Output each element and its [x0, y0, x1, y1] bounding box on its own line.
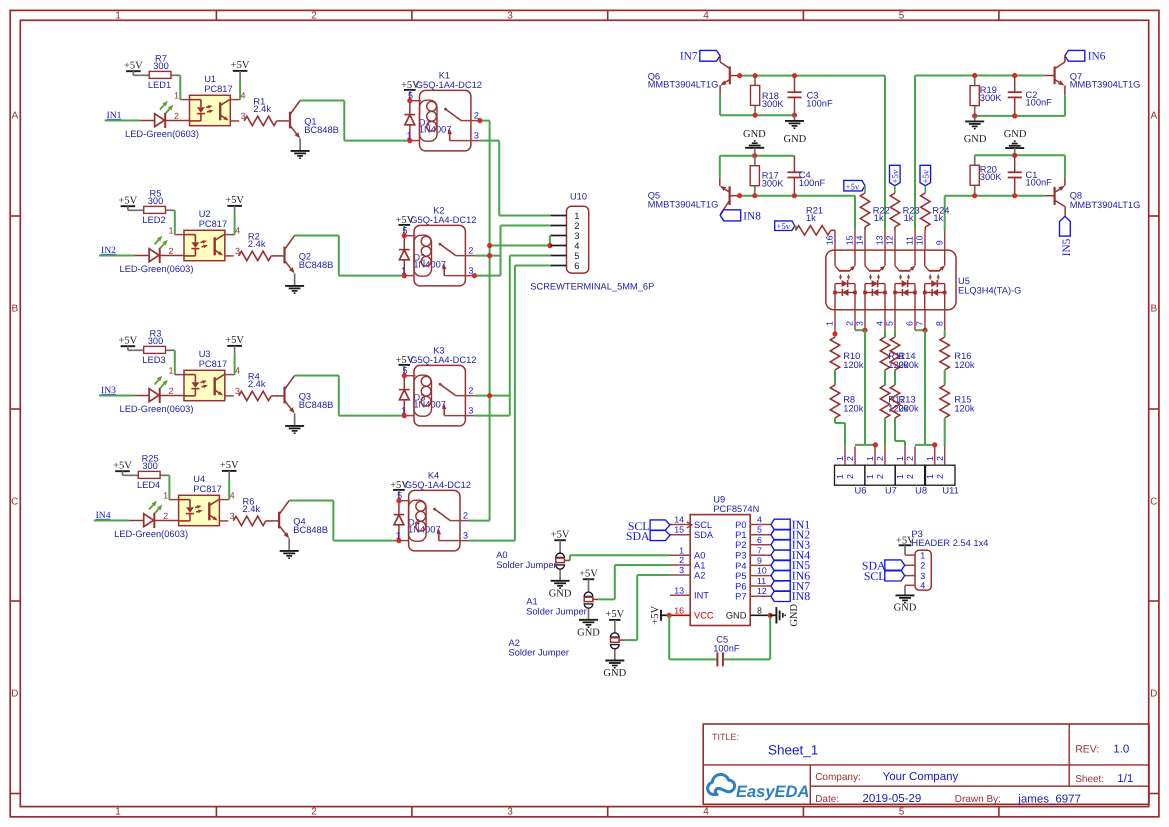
ground [294, 413, 296, 425]
svg-text:4: 4 [230, 490, 235, 500]
svg-text:SCL: SCL [694, 520, 712, 530]
svg-text:10: 10 [915, 235, 925, 245]
wire Q1-K1 [344, 140, 410, 142]
svg-text:4: 4 [703, 807, 709, 818]
diode D2 1N4007 [403, 236, 405, 250]
U5 cell 2 LED pair [864, 284, 866, 310]
svg-text:9: 9 [757, 555, 762, 565]
svg-text:1: 1 [163, 490, 168, 500]
wire R8 to U6 pin1 [834, 418, 836, 423]
U9 pin 3 A2 [670, 574, 690, 576]
capacitor C3 100nF [794, 76, 796, 93]
power flag +5v for R22 [844, 180, 865, 191]
svg-text:100nF: 100nF [713, 644, 740, 654]
transistor Q6 MMBT3904LT1G [719, 56, 721, 62]
svg-text:+5V: +5V [231, 60, 250, 71]
resistor R23 1k [894, 186, 896, 193]
wire Q7 emitter rail [1064, 95, 1066, 116]
svg-text:2: 2 [875, 456, 885, 461]
svg-text:U8: U8 [915, 486, 927, 496]
svg-text:1k: 1k [933, 213, 943, 223]
svg-text:120k: 120k [954, 404, 975, 414]
resistor R11 120k [880, 337, 889, 370]
pin 5 [551, 255, 567, 257]
svg-text:P5: P5 [735, 571, 746, 581]
U9 pin 1 A0 [670, 554, 690, 556]
svg-text:300K: 300K [980, 172, 1003, 182]
svg-text:GND: GND [603, 668, 626, 679]
U9 pin 4 P0 [750, 524, 771, 526]
svg-text:2: 2 [174, 111, 179, 121]
svg-text:2: 2 [845, 456, 855, 461]
svg-text:120k: 120k [843, 360, 864, 370]
port IN4 [771, 550, 790, 561]
svg-text:GND: GND [1004, 129, 1027, 140]
resistor R24 1k [924, 186, 926, 193]
U9 pin 5 P1 [750, 534, 771, 536]
svg-text:MMBT3904LT1G: MMBT3904LT1G [648, 80, 719, 90]
svg-text:+5v: +5v [921, 169, 931, 183]
svg-text:2: 2 [679, 555, 684, 565]
transistor Q1 BC848B [277, 120, 289, 122]
svg-text:Solder Jumper: Solder Jumper [496, 560, 556, 570]
wire collector [295, 235, 339, 237]
power flag +5v for R21 [775, 221, 795, 231]
U5 cell 4 LED pair [924, 284, 926, 310]
svg-text:G5Q-1A4-DC12: G5Q-1A4-DC12 [416, 80, 482, 90]
wire [179, 75, 181, 99]
U5 pin 6 [914, 310, 916, 330]
svg-text:1: 1 [115, 11, 121, 22]
svg-text:1: 1 [825, 321, 835, 326]
svg-text:BC848B: BC848B [304, 125, 339, 135]
svg-text:2: 2 [168, 386, 173, 396]
svg-text:2: 2 [574, 221, 579, 231]
svg-text:INT: INT [694, 591, 709, 601]
wire R12 to U7 pin2 [884, 418, 886, 446]
svg-text:14: 14 [855, 235, 865, 245]
resistor R6 2.4k [233, 516, 265, 525]
U5 pin 5 [894, 310, 896, 330]
wire collector [300, 100, 344, 102]
svg-text:3: 3 [920, 571, 925, 581]
wire Q6 base rail [730, 75, 740, 77]
wire [168, 475, 170, 499]
ground [294, 273, 296, 285]
svg-text:1: 1 [835, 474, 845, 479]
pin 3 [551, 235, 567, 237]
U5 pin 16 [834, 230, 836, 250]
U5 pin 13 [884, 230, 886, 250]
svg-text:4: 4 [235, 225, 240, 235]
svg-text:9: 9 [934, 240, 944, 245]
svg-text:Solder Jumper: Solder Jumper [509, 648, 569, 658]
svg-text:5: 5 [899, 807, 905, 818]
svg-text:IN7: IN7 [680, 50, 698, 62]
svg-text:1k: 1k [904, 213, 914, 223]
svg-text:LED1: LED1 [148, 80, 171, 90]
resistor R17 300K [754, 156, 756, 166]
svg-text:GND: GND [964, 134, 987, 145]
svg-text:VCC: VCC [694, 611, 714, 621]
svg-text:P6: P6 [735, 581, 746, 591]
wire [225, 234, 235, 236]
IC U9 PCF8574N [690, 515, 750, 626]
svg-text:6: 6 [905, 321, 915, 326]
svg-text:GND: GND [726, 611, 747, 621]
svg-text:U6: U6 [855, 486, 867, 496]
svg-text:3: 3 [463, 531, 468, 541]
relay K1 G5Q-1A4-DC12 [420, 90, 471, 150]
svg-text:Drawn By:: Drawn By: [955, 794, 1001, 805]
port IN1 [771, 519, 790, 530]
resistor R12 120k [880, 385, 889, 418]
U9 pin 13 INT [670, 594, 690, 596]
svg-text:1.0: 1.0 [1113, 744, 1129, 756]
svg-text:PC817: PC817 [199, 219, 227, 229]
svg-text:300K: 300K [980, 93, 1003, 103]
U9 pin 2 A1 [670, 564, 690, 566]
svg-text:C: C [1150, 497, 1157, 508]
svg-text:1: 1 [920, 551, 925, 561]
svg-text:SCREWTERMINAL_5MM_6P: SCREWTERMINAL_5MM_6P [530, 282, 654, 292]
svg-text:4: 4 [875, 321, 885, 326]
svg-text:2.4k: 2.4k [243, 504, 261, 514]
svg-text:11: 11 [757, 576, 766, 586]
svg-text:2: 2 [311, 11, 317, 22]
svg-text:P3: P3 [735, 551, 746, 561]
wire A1 to U9 [593, 598, 599, 600]
svg-text:2.4k: 2.4k [248, 239, 266, 249]
optocoupler U4 PC817 [179, 495, 220, 525]
power flag +5v for R24 [920, 165, 931, 185]
wire U5 pin8 column [944, 330, 946, 337]
svg-text:U5: U5 [958, 276, 970, 286]
wire Q7 base rail [1045, 75, 1055, 77]
svg-text:300K: 300K [762, 178, 785, 188]
port IN7 [771, 581, 790, 592]
svg-text:3: 3 [468, 406, 473, 416]
resistor R2 2.4k [239, 251, 272, 260]
svg-text:REV:: REV: [1075, 744, 1099, 756]
U5 pin 3 [864, 310, 866, 330]
svg-text:+5V: +5V [119, 335, 138, 346]
port IN7 [700, 50, 720, 61]
svg-text:2: 2 [468, 386, 473, 396]
capacitor C5 100nF [668, 615, 670, 659]
svg-text:7: 7 [757, 545, 762, 555]
U5 pin 10 [924, 230, 926, 250]
svg-text:U2: U2 [199, 209, 211, 219]
svg-text:4: 4 [703, 11, 709, 22]
svg-text:2: 2 [463, 511, 468, 521]
junction dots [407, 98, 412, 103]
relay K2 G5Q-1A4-DC12 [414, 225, 465, 286]
svg-text:1: 1 [925, 456, 935, 461]
svg-text:Company:: Company: [815, 772, 861, 783]
svg-text:6: 6 [574, 261, 579, 271]
transistor Q8 MMBT3904LT1G [1064, 178, 1066, 186]
U5 cell 1 phototransistor [834, 250, 836, 266]
svg-text:2.4k: 2.4k [253, 104, 271, 114]
optocoupler U2 PC817 [184, 230, 225, 260]
svg-text:A0: A0 [694, 551, 705, 561]
port IN2 [771, 529, 790, 540]
svg-text:+5V: +5V [225, 195, 244, 206]
svg-text:120k: 120k [843, 404, 864, 414]
svg-text:Solder Jumper: Solder Jumper [526, 606, 586, 616]
svg-text:200k: 200k [899, 360, 920, 370]
optocoupler U5 ELQ3H4(TA)-G [826, 250, 956, 310]
optocoupler U1 PC817 [190, 95, 231, 125]
svg-text:1: 1 [174, 90, 179, 100]
resistor R16 120k [940, 337, 949, 370]
resistor R1 2.4k [244, 116, 277, 125]
svg-text:300K: 300K [762, 99, 785, 109]
svg-text:BC848B: BC848B [299, 260, 334, 270]
U5 cell 4 phototransistor [924, 250, 926, 266]
svg-text:A: A [1150, 111, 1157, 122]
wire K2 pin3 to U10 pin2 [474, 275, 500, 277]
wire K3 pin3 to U10 pin5 [474, 415, 509, 417]
svg-text:TITLE:: TITLE: [712, 732, 739, 742]
U5 pin 1 [834, 310, 836, 330]
svg-text:8: 8 [934, 321, 944, 326]
svg-text:+5V: +5V [605, 609, 624, 620]
svg-text:+5V: +5V [124, 60, 143, 71]
svg-text:G5Q-1A4-DC12: G5Q-1A4-DC12 [405, 480, 471, 490]
svg-text:1k: 1k [874, 213, 884, 223]
svg-text:300: 300 [153, 61, 169, 71]
svg-text:HEADER 2.54 1x4: HEADER 2.54 1x4 [911, 538, 988, 548]
wire Q2-K2 [339, 275, 405, 277]
svg-text:2019-05-29: 2019-05-29 [863, 793, 922, 805]
svg-text:+5V: +5V [225, 335, 244, 346]
svg-text:2: 2 [875, 474, 885, 479]
junction dots [396, 498, 401, 503]
U5 pin 14 [864, 230, 866, 250]
svg-text:100nF: 100nF [1026, 97, 1053, 107]
svg-text:1k: 1k [806, 213, 816, 223]
power flag +5v for R23 [890, 165, 901, 185]
resistor R20 300K [974, 155, 976, 165]
svg-text:13: 13 [674, 585, 684, 595]
resistor R15 120k [940, 385, 949, 418]
svg-text:Sheet:: Sheet: [1075, 774, 1104, 785]
svg-text:100nF: 100nF [806, 99, 833, 109]
svg-text:+5V: +5V [551, 530, 570, 541]
svg-text:2: 2 [845, 474, 855, 479]
wire R13 to U8 pin1 [894, 418, 896, 441]
svg-text:SDA: SDA [626, 529, 650, 543]
svg-text:U4: U4 [193, 474, 205, 484]
U5 cell 4 light arrows [929, 278, 931, 280]
wire U5 pin1 [834, 330, 836, 337]
svg-text:3: 3 [679, 565, 684, 575]
U5 cell 1 light arrows [840, 278, 842, 280]
svg-text:4: 4 [757, 515, 762, 525]
resistor R25 300 [128, 474, 138, 476]
svg-text:15: 15 [674, 525, 684, 535]
svg-text:P0: P0 [735, 520, 746, 530]
U9 pin 8 GND [750, 614, 770, 616]
resistor R18 300K [754, 76, 756, 86]
connector U7 [865, 465, 895, 485]
resistor R5 300 [134, 209, 144, 211]
pin 4 [551, 245, 567, 247]
svg-text:11: 11 [905, 236, 915, 245]
port IN8 [771, 591, 790, 602]
svg-text:LED-Green(0603): LED-Green(0603) [120, 404, 194, 414]
svg-text:GND: GND [784, 134, 807, 145]
svg-text:PC817: PC817 [204, 84, 232, 94]
svg-text:120k: 120k [954, 360, 975, 370]
wire to U5 pin15 [854, 196, 856, 231]
svg-text:K1: K1 [439, 70, 450, 80]
svg-text:Date:: Date: [815, 794, 839, 805]
LED LED3 LED-Green(0603) [135, 395, 149, 397]
U5 pin 7 [924, 310, 926, 330]
port SDA at P3 [885, 560, 905, 571]
svg-text:1: 1 [574, 211, 579, 221]
svg-text:PCF8574N: PCF8574N [713, 504, 759, 514]
svg-text:B: B [1150, 304, 1157, 315]
P3 pin 2 [905, 564, 915, 566]
svg-text:2: 2 [168, 246, 173, 256]
U9 pin 6 P2 [750, 544, 771, 546]
U5 cell 3 light arrows [900, 278, 902, 280]
P3 pin 1 [905, 554, 915, 556]
svg-text:12: 12 [757, 586, 767, 596]
svg-text:3: 3 [574, 231, 579, 241]
U5 pin 4 [884, 310, 886, 330]
svg-text:+5v: +5v [890, 169, 900, 183]
svg-text:1: 1 [679, 545, 684, 555]
svg-text:2: 2 [905, 456, 915, 461]
U5 pin 9 [944, 230, 946, 250]
svg-text:300: 300 [142, 461, 158, 471]
svg-text:+5v: +5v [846, 181, 860, 191]
U5 cell 2 phototransistor [864, 250, 866, 266]
svg-text:2: 2 [311, 807, 317, 818]
U9 pin 14 SCL [670, 524, 690, 526]
pin 1 [551, 215, 567, 217]
U5 pin 15 [854, 230, 856, 250]
svg-text:LED3: LED3 [142, 355, 165, 365]
svg-text:MMBT3904LT1G: MMBT3904LT1G [1070, 200, 1141, 210]
svg-text:P7: P7 [735, 592, 746, 602]
svg-text:BC848B: BC848B [293, 525, 328, 535]
resistor R4 2.4k [239, 391, 272, 400]
svg-text:MMBT3904LT1G: MMBT3904LT1G [1070, 80, 1141, 90]
resistor R7 300 [139, 74, 149, 76]
svg-text:U11: U11 [942, 486, 958, 496]
svg-text:PC817: PC817 [193, 484, 221, 494]
connector U8 [895, 465, 925, 485]
svg-text:B: B [11, 304, 18, 315]
svg-text:K4: K4 [428, 470, 439, 480]
svg-text:1: 1 [168, 225, 173, 235]
svg-text:A1: A1 [694, 560, 705, 570]
ground at U9 pin8 [770, 614, 776, 616]
wire Q6 emitter rail [719, 95, 721, 115]
connector U6 [835, 465, 865, 485]
port IN5 [1060, 216, 1071, 236]
U9 pin 15 SDA [670, 534, 690, 536]
svg-text:ELQ3H4(TA)-G: ELQ3H4(TA)-G [958, 286, 1021, 296]
svg-text:EasyEDA: EasyEDA [736, 783, 809, 801]
svg-text:5: 5 [574, 251, 579, 261]
pin 6 [551, 265, 567, 267]
svg-text:3: 3 [507, 11, 513, 22]
wire U5 pin4 column [884, 330, 886, 337]
transistor Q5 MMBT3904LT1G [719, 178, 721, 186]
wire [219, 499, 229, 501]
wire K3 pin2 [474, 395, 509, 397]
svg-text:5: 5 [757, 525, 762, 535]
title block [703, 724, 1149, 804]
port SCL [650, 520, 670, 530]
resistor R3 300 [134, 349, 144, 351]
wire Q4-K4 [333, 540, 399, 542]
transistor Q7 MMBT3904LT1G [1064, 56, 1066, 62]
svg-text:LED2: LED2 [142, 215, 165, 225]
wire [230, 99, 240, 101]
resistor R10 120k [830, 337, 839, 370]
U9 pin 10 P5 [750, 575, 771, 577]
svg-text:IN5: IN5 [1061, 238, 1073, 256]
U5 pin 2 [854, 310, 856, 330]
svg-text:D: D [1150, 689, 1157, 700]
U5 pin 8 [944, 310, 946, 330]
U5 cell 3 phototransistor [894, 250, 896, 266]
U9 pin 12 P7 [750, 595, 771, 597]
svg-text:U3: U3 [199, 349, 211, 359]
svg-text:4: 4 [574, 241, 579, 251]
svg-text:2.4k: 2.4k [248, 379, 266, 389]
svg-text:GND: GND [549, 589, 572, 600]
P3 pin 4 [905, 584, 915, 586]
svg-text:GND: GND [789, 604, 800, 627]
svg-text:1: 1 [115, 807, 121, 818]
port SCL at P3 [885, 570, 905, 581]
svg-text:A: A [11, 111, 18, 122]
svg-text:1: 1 [895, 474, 905, 479]
diode D3 1N4007 [403, 376, 405, 390]
svg-text:K3: K3 [433, 345, 444, 355]
svg-text:IN6: IN6 [1088, 50, 1106, 62]
svg-text:10: 10 [757, 566, 767, 576]
capacitor C1 100nF [1014, 155, 1016, 172]
svg-text:A0: A0 [496, 550, 507, 560]
svg-text:3: 3 [474, 131, 479, 141]
svg-text:4: 4 [920, 581, 925, 591]
wire U10 pins3-4 to common [490, 245, 551, 247]
svg-text:3: 3 [507, 807, 513, 818]
svg-text:2: 2 [920, 561, 925, 571]
wire K4 pin2 [469, 520, 490, 522]
wire A2 to U9 [619, 639, 625, 641]
wire R15 to U11 pin2 [944, 418, 946, 446]
svg-text:MMBT3904LT1G: MMBT3904LT1G [648, 199, 719, 209]
svg-text:IN8: IN8 [792, 589, 810, 603]
junction dots [402, 233, 407, 238]
svg-text:P4: P4 [735, 561, 746, 571]
U5 cell 3 LED pair [894, 284, 896, 310]
svg-text:+5v: +5v [776, 221, 790, 231]
transistor Q2 BC848B [271, 255, 283, 257]
svg-text:2: 2 [935, 456, 945, 461]
